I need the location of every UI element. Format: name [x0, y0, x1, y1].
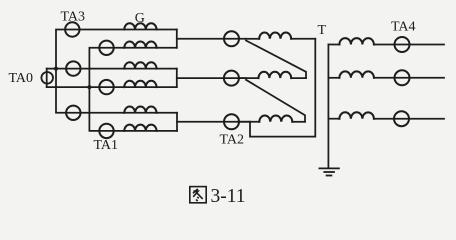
generator winding coil row1 — [124, 23, 156, 29]
current transformer row4 — [99, 80, 113, 94]
current transformer TA4 phase b — [395, 70, 410, 85]
wire T secondary star bus — [327, 45, 329, 168]
current transformer row3 — [66, 61, 80, 75]
current transformer TA4 phase c — [394, 111, 409, 126]
transformer T secondary winding b and wire — [328, 71, 444, 77]
current transformer TA3 (row1) — [65, 22, 79, 36]
current transformer TA2 phase a — [224, 31, 239, 46]
transformer T primary winding A — [246, 32, 315, 38]
wire loop1 right edge — [176, 30, 178, 48]
generator winding coil row6 — [124, 125, 156, 131]
transformer T primary winding B — [239, 72, 306, 78]
generator winding coil row3 — [124, 62, 156, 68]
wire phase b output — [177, 77, 246, 79]
current transformer TA4 phase a — [395, 37, 410, 52]
transformer T secondary winding a and wire — [328, 38, 444, 44]
generator winding coil row4 — [124, 81, 156, 87]
wire delta wrap C-left to A-right — [250, 39, 315, 137]
svg-text:TA0: TA0 — [9, 71, 34, 86]
wire loop3 right edge — [176, 113, 178, 131]
node junction bus1/row3 — [54, 67, 58, 71]
caption glyph 图 — [190, 187, 206, 203]
transformer T primary winding C — [238, 115, 305, 121]
wire loop2 right edge — [176, 69, 178, 88]
wire phase a output — [177, 38, 246, 40]
wire bus1 (generator branch-set 1 neutral bus) — [56, 30, 177, 113]
generator winding coil row2 — [124, 41, 156, 47]
svg-text:TA2: TA2 — [220, 132, 245, 147]
svg-text:TA4: TA4 — [391, 19, 416, 34]
wire delta diagonal B-left to C-right — [246, 80, 305, 122]
ground symbol — [319, 168, 339, 175]
current transformer TA2 phase c — [224, 114, 239, 129]
current transformer TA0 — [41, 72, 53, 84]
svg-text:3-11: 3-11 — [211, 186, 246, 207]
wire TA0 jumper vertical — [46, 69, 48, 88]
svg-text:TA3: TA3 — [61, 10, 86, 25]
current transformer TA1 (row6) — [99, 124, 113, 138]
wire bus2 (generator branch-set 2 neutral bus) — [89, 48, 177, 131]
transformer T secondary winding c and wire — [328, 112, 444, 118]
current transformer row5 — [66, 106, 80, 120]
current transformer TA2 phase b — [224, 71, 239, 86]
wire phase c output — [177, 121, 250, 123]
wire delta diagonal A-left to B-right — [246, 41, 306, 79]
node junction bus2/row4 — [87, 85, 91, 89]
wire row3 (phase b branch 1) — [47, 68, 177, 70]
wire row4 (phase b branch 2) — [47, 86, 177, 88]
svg-text:G: G — [135, 11, 145, 26]
current transformer row2 — [99, 41, 113, 55]
svg-text:TA1: TA1 — [94, 138, 119, 153]
svg-text:T: T — [318, 23, 327, 38]
generator winding coil row5 — [124, 106, 156, 112]
